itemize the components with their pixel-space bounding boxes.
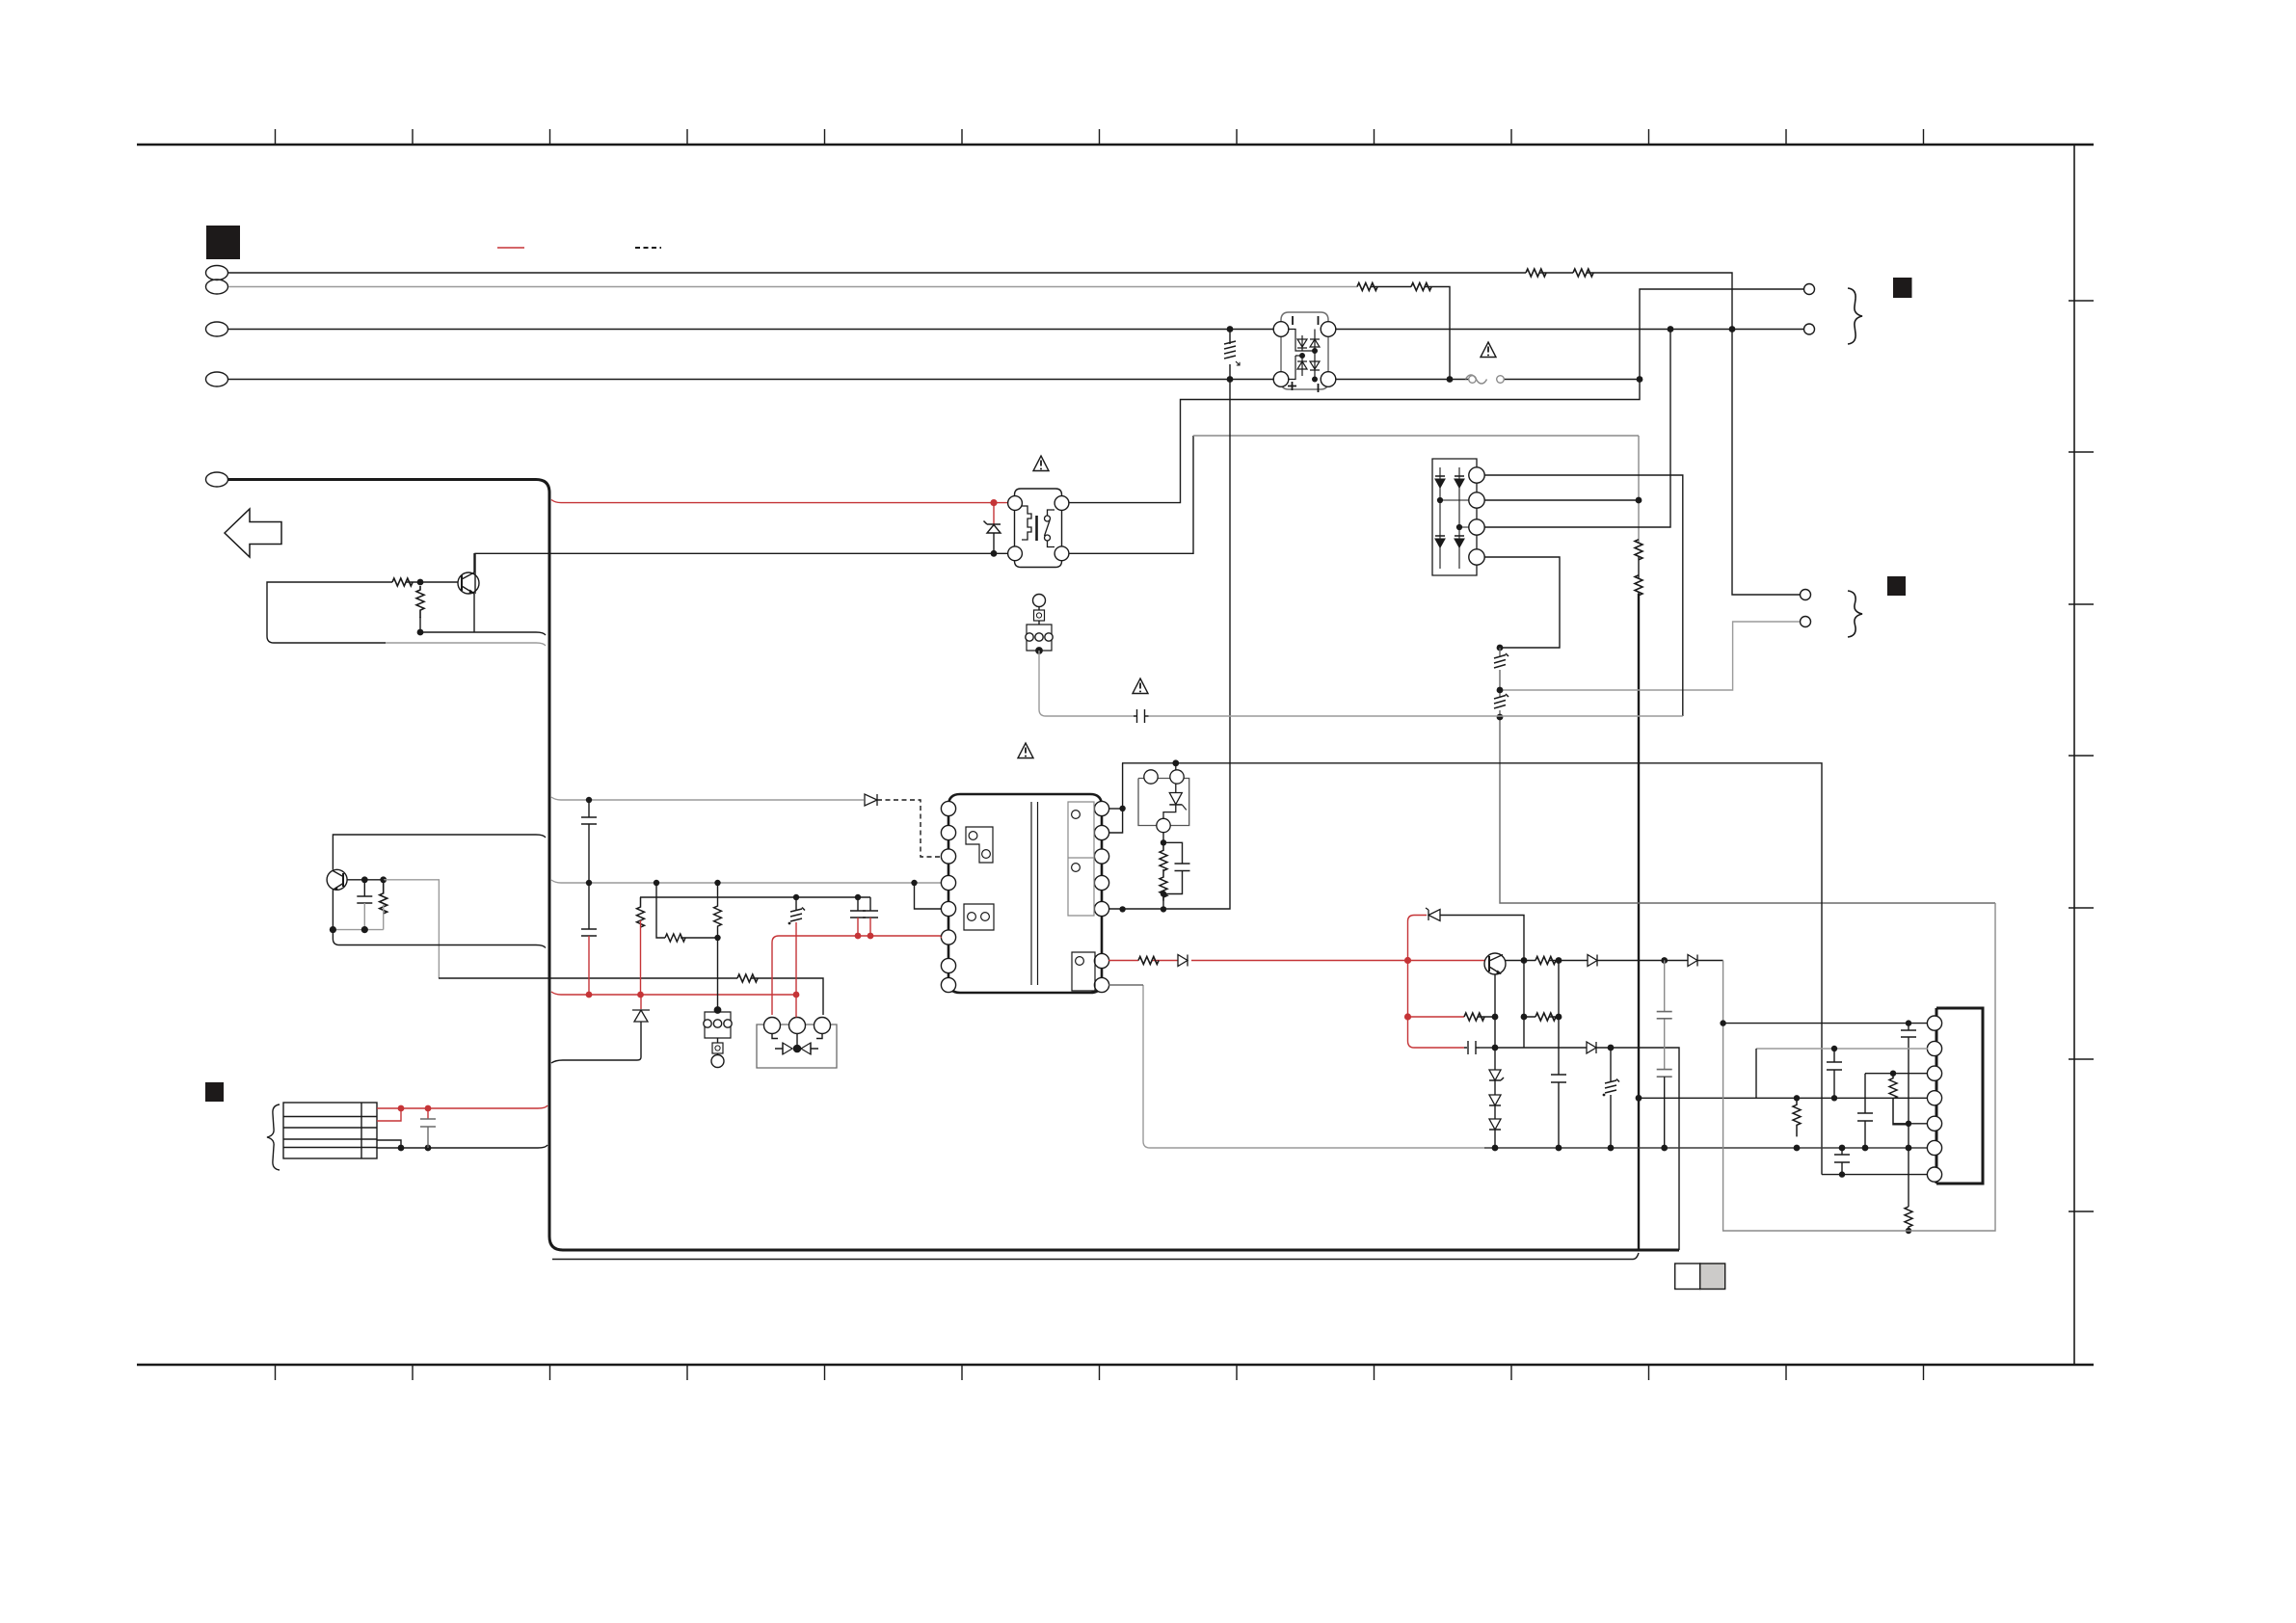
node battery red a: [398, 1105, 405, 1112]
transformer secondary pins: [1094, 801, 1108, 992]
capacitor C2: [850, 897, 866, 918]
node pin1 tap: [1906, 1020, 1911, 1025]
resistor R14: [1889, 1074, 1909, 1125]
node rail x1164: [1119, 906, 1125, 912]
wire thick live feed line 5: [228, 480, 1679, 1251]
capacitor C15: [1834, 1148, 1850, 1175]
node battery black b: [425, 1145, 432, 1152]
warning triangle lower: [1018, 743, 1033, 758]
resistor R5 vertical: [637, 897, 645, 927]
startup rail top: [1122, 763, 1822, 1175]
node bus d: [1661, 1145, 1668, 1152]
node red start b: [637, 992, 644, 998]
node divider bottom: [1161, 891, 1166, 896]
bridge D101 pin AC1: [1273, 322, 1289, 337]
resistor R101: [1526, 269, 1546, 277]
node red base: [1404, 957, 1411, 964]
wire cap rail to bridge2 loop: [1149, 715, 1683, 717]
node red start a: [586, 992, 593, 998]
bridge D103 pin 1: [1469, 467, 1484, 483]
node bus f: [1839, 1145, 1846, 1152]
resistor R13: [1905, 1207, 1912, 1231]
zener ZD2: [1494, 694, 1508, 708]
wire relay pin4 riser to sense: [1069, 436, 1193, 553]
zener chain vertical: [1500, 648, 1995, 903]
connector CN2: [704, 1007, 732, 1068]
wire D4 to loop: [1697, 960, 1723, 962]
regulator IC1 body: [1936, 1008, 1983, 1184]
warning triangle fuse area: [1481, 342, 1496, 358]
wire red mid branch: [1408, 1016, 1465, 1018]
wire red primary feed: [941, 937, 942, 939]
terminal T1: [1804, 284, 1815, 295]
wire R11 lead: [1524, 960, 1588, 962]
node red relay feed: [990, 499, 997, 506]
node snubber rail a: [793, 894, 799, 900]
warning triangle center: [1133, 678, 1148, 694]
node enclosure pin1: [1720, 1020, 1725, 1025]
connector oval pin 2: [206, 279, 228, 294]
resistor R9: [1138, 957, 1159, 965]
capacitor C6: [1163, 842, 1190, 893]
legend dashed line sample: [635, 247, 661, 249]
wire snubber top rail: [640, 896, 870, 898]
node bus e: [1794, 1145, 1801, 1152]
bridge D103 pin 3: [1469, 519, 1484, 535]
wire ZNR2 red drop: [795, 922, 797, 1018]
node gray mid a: [586, 880, 592, 886]
diode D102 relay clamp: [984, 506, 1001, 553]
node Q1 emitter junction: [417, 629, 424, 636]
node red mid: [1404, 1013, 1411, 1020]
node battery red b: [425, 1105, 432, 1112]
winding box secondary upper: [1068, 802, 1094, 916]
wire Q3 base rail: [347, 879, 384, 881]
wire pin4 feed: [1639, 1097, 1928, 1099]
node pin3 tap: [1890, 1071, 1896, 1077]
bridge D101 pin +: [1273, 372, 1289, 387]
dashed link to T1 pin3: [877, 800, 942, 857]
connector oval pin 5: [206, 472, 228, 487]
node startup bottom rail: [1161, 906, 1166, 912]
resistor R11: [1535, 957, 1556, 965]
zener ZD1: [1494, 653, 1508, 668]
secondary ground bus: [1143, 985, 1484, 1148]
node startup top: [1172, 759, 1179, 766]
transistor Q3: [327, 835, 546, 930]
resistor R10: [1464, 1013, 1484, 1021]
node battery black a: [398, 1145, 405, 1152]
node R6 right: [714, 935, 720, 941]
diode D1: [865, 794, 877, 806]
terminal T3: [1801, 590, 1811, 600]
node line3 varistor top: [1227, 326, 1234, 333]
capacitor C11: [1551, 961, 1566, 1149]
node red aux b: [868, 933, 874, 940]
wire AC line 1: [228, 273, 1800, 595]
transformer T1 body: [948, 794, 1102, 993]
wire bridge2 pin4 to zener chain: [1484, 557, 1560, 648]
wire CN1 to cap rail: [1039, 651, 1134, 716]
wire base rail gray onward: [384, 880, 439, 978]
node divider left: [1521, 1014, 1528, 1021]
zener diode chain left: [551, 995, 650, 1063]
varistor ZNR2: [788, 897, 805, 924]
node C12 taps: [1906, 1121, 1911, 1127]
wire C2 C3 red tails: [858, 918, 870, 936]
capacitor C12: [1901, 1024, 1916, 1207]
node fuse left: [1447, 376, 1454, 383]
relay RY1 coil: [1022, 506, 1031, 540]
legend black square: [206, 226, 240, 259]
node low rail a: [1608, 1045, 1615, 1051]
relay RY1 pin 1: [1008, 496, 1023, 511]
wire R5 red tail: [640, 920, 642, 995]
node gray rail upper: [586, 797, 592, 803]
node zener bottom feed: [1497, 714, 1504, 721]
wire Q3 return to bus: [333, 930, 546, 948]
wire emitter return to bus: [420, 617, 546, 635]
battery brace: [267, 1104, 280, 1170]
wire snubber corner: [639, 896, 641, 898]
bottom ruler ticks: [276, 1365, 1924, 1380]
node emitter rail a: [330, 926, 336, 933]
wire emitter low rail: [1495, 1048, 1679, 1250]
gray enclosure loop: [1723, 903, 1995, 1231]
wire C5 red tail: [588, 936, 590, 995]
wire feedback divider: [656, 883, 718, 938]
transistor Q1: [458, 553, 479, 632]
wire red low branch: [1408, 1041, 1465, 1048]
node bus h: [1906, 1145, 1912, 1152]
node bus b: [1556, 1145, 1562, 1152]
relay RY1 pin 2: [1055, 496, 1069, 511]
bridge D101 inner rails: [1289, 330, 1320, 382]
zener stack Q2 emitter: [1489, 1070, 1504, 1148]
resistor R3: [380, 880, 387, 914]
node emitter mid: [1492, 1014, 1499, 1021]
node line4 varistor bottom: [1227, 376, 1234, 383]
connector oval pin 3: [206, 322, 228, 336]
capacitor C10a C10b chain: [1664, 960, 1666, 1069]
transformer primary pins: [941, 801, 955, 992]
marker square output 1: [1893, 278, 1912, 298]
wire relay pin2 riser to T1: [1069, 289, 1804, 503]
capacitor C7 series: [1134, 709, 1149, 723]
IC1 pin 3: [1927, 1066, 1941, 1080]
node divider top: [1161, 839, 1166, 845]
startup circuit box: [1138, 763, 1189, 833]
wire thick secondary return drop: [1638, 594, 1640, 1250]
wire bridge2 pin2: [1484, 499, 1639, 501]
capacitor C13: [1827, 1049, 1842, 1098]
wire pin7 feed: [1822, 1174, 1928, 1176]
connector oval pin 4: [206, 372, 228, 386]
node emitter low: [1492, 1045, 1499, 1051]
wire T4 to zener chain gray: [1500, 622, 1800, 690]
capacitor C9 series: [1464, 1041, 1480, 1054]
node out rail b: [1661, 957, 1668, 964]
brace output pair 2: [1848, 591, 1862, 637]
node R12 right: [1556, 1014, 1562, 1021]
thermal protector TH1: [757, 1018, 837, 1069]
bridge rectifier D103 outline: [1432, 459, 1477, 575]
capacitor C14: [1857, 1074, 1873, 1148]
IC1 pin 5: [1927, 1116, 1941, 1131]
capacitor C3: [863, 897, 878, 918]
wire red aux rail: [772, 936, 941, 1015]
node bus a: [1492, 1145, 1499, 1152]
wire battery red main: [377, 1105, 547, 1108]
sheet frame group: [137, 129, 2094, 1380]
resistor R4: [737, 974, 758, 982]
wire thin return bus lower: [552, 1253, 1639, 1260]
wire pin5 rail to line4: [1108, 380, 1230, 910]
relay RY1 pin 4: [1055, 546, 1069, 561]
wire ZD3 to collector: [1440, 916, 1524, 961]
terminal T2: [1804, 324, 1815, 334]
relay RY1 pin 3: [1008, 546, 1023, 561]
wire red vertical Q2: [1408, 916, 1428, 1042]
wire D3 onward: [1597, 960, 1688, 962]
wire red bus to relay: [551, 500, 1008, 503]
marker square output 2: [1887, 576, 1906, 596]
node bus c: [1608, 1145, 1615, 1152]
IC1 pin 7: [1927, 1167, 1941, 1182]
node pin4 taps: [1794, 1095, 1800, 1101]
connector CN1: [1026, 595, 1053, 654]
transistor Q2: [1484, 953, 1524, 1070]
wire divider to rail: [1162, 894, 1164, 910]
wire AC line 2 gray: [228, 286, 1357, 288]
diode D2: [1178, 955, 1188, 967]
wire battery black sense: [377, 1140, 401, 1148]
node gray mid d: [911, 880, 917, 886]
wire sense chain vertical: [1638, 436, 1640, 543]
node pin1 link: [1119, 806, 1125, 811]
resistor R106: [1635, 575, 1642, 596]
fuse F1: [1466, 375, 1505, 384]
wire C9 to emitter: [1480, 1047, 1495, 1049]
wire AC line 3: [228, 329, 1804, 331]
winding tap box primary upper: [966, 827, 993, 863]
winding tap box primary lower: [964, 904, 994, 930]
wire battery red sense: [377, 1108, 401, 1121]
bridge D101 polarity marks: [1293, 316, 1319, 392]
wire red start rail: [551, 992, 796, 995]
resistor R2 Q1: [416, 586, 424, 618]
node pin7 tap: [1839, 1171, 1845, 1177]
right border ticks: [2069, 301, 2094, 1211]
node bridge2 ac on drop: [1636, 497, 1642, 504]
node snubber rail b: [855, 894, 861, 900]
resistor R15: [1793, 1098, 1801, 1136]
node R13 bottom: [1906, 1228, 1911, 1234]
wire red output from pin6: [1108, 960, 1485, 962]
node emitter rail b: [361, 926, 368, 933]
zener ZD3: [1426, 908, 1440, 921]
node out rail a: [1556, 957, 1562, 964]
top ruler line: [137, 144, 2094, 146]
node line3 to bridge2: [1668, 326, 1674, 333]
wire startup left drop: [1108, 763, 1123, 833]
resistor R102: [1573, 269, 1593, 277]
node Q3 base b: [380, 876, 387, 883]
node gray mid c: [714, 880, 720, 886]
wire collector divider: [1524, 961, 1559, 1049]
wire R1 to base: [406, 581, 458, 583]
node Q2 collector: [1521, 957, 1528, 964]
wire opto output line: [439, 978, 823, 1015]
bridge D103 inner diodes: [1435, 467, 1469, 569]
brace output pair 1: [1848, 288, 1862, 344]
bridge D101 pin AC2: [1321, 322, 1336, 337]
node Q3 base a: [361, 876, 368, 883]
resistor R105: [1635, 540, 1642, 560]
wire pin2 feed gray: [1756, 1048, 1928, 1050]
wire Q1 base loop: [267, 582, 392, 643]
node pin2 tap: [1831, 1046, 1837, 1051]
diode D3: [1588, 955, 1597, 967]
wire pin2 riser: [1755, 1049, 1757, 1098]
varistor ZNR3: [1603, 1048, 1619, 1148]
resistor R6 horizontal: [665, 934, 685, 942]
wire between R103 R104: [1371, 286, 1411, 288]
bridge rectifier D101 outline: [1281, 312, 1328, 389]
wire relay return to Q1 collector: [475, 553, 1008, 594]
wire pin4 gray link: [915, 883, 943, 909]
IC1 pin 6: [1927, 1140, 1941, 1155]
IC1 pin 4: [1927, 1091, 1941, 1105]
bridge D101 pin -: [1321, 372, 1336, 387]
bottom ruler line: [137, 1364, 2094, 1367]
resistor R7 vertical: [714, 883, 722, 1010]
battery pack BT1: [283, 1103, 377, 1158]
gray rail mid: [551, 880, 942, 883]
IC1 pin 2: [1927, 1041, 1941, 1055]
bridge D103 pin 2: [1469, 492, 1484, 508]
wire startup to divider: [1162, 833, 1164, 843]
capacitor C5: [581, 883, 597, 936]
wire battery black main: [377, 1145, 547, 1148]
resistor R104: [1411, 283, 1431, 291]
node Q1 base divider: [417, 579, 424, 586]
connector oval pin 1: [206, 266, 228, 280]
wire pin5 feed: [1893, 1123, 1928, 1125]
wire emitter rail gray: [333, 929, 383, 931]
capacitor C4: [581, 800, 597, 883]
node relay return: [991, 550, 998, 557]
resistor R12: [1535, 1013, 1556, 1021]
gray rail upper: [551, 797, 864, 800]
terminal T4: [1801, 617, 1811, 627]
node fuse right: [1637, 376, 1643, 383]
wire AC line 4: [228, 379, 1640, 381]
wire bridge2 pin1 loop: [1484, 475, 1683, 716]
marker square battery: [205, 1082, 224, 1102]
node gray mid b: [654, 880, 659, 886]
transformer core lines: [1031, 802, 1038, 985]
block arrow to mains: [225, 509, 281, 557]
wire R104 to fuse line: [1425, 287, 1450, 380]
relay RY1 outline: [1015, 489, 1062, 568]
capacitor C8: [427, 1108, 429, 1119]
legend red line sample: [497, 247, 524, 249]
wire R10 to emitter: [1478, 1016, 1495, 1018]
capacitor C1: [357, 880, 372, 903]
wire pin1 stub: [1108, 808, 1123, 810]
node red start rail: [793, 992, 800, 998]
resistor R103: [1357, 283, 1377, 291]
bridge D103 pin 4: [1469, 549, 1484, 565]
IC1 pin 1: [1927, 1016, 1941, 1030]
node bus g: [1862, 1145, 1869, 1152]
wire pin1 feed: [1723, 1023, 1928, 1024]
winding box secondary lower: [1072, 952, 1095, 991]
relay RY1 contact: [1037, 510, 1055, 547]
resistor R8a: [1160, 842, 1167, 870]
node pin4 feed on drop: [1636, 1095, 1642, 1102]
right border line: [2073, 145, 2075, 1365]
wire bridge2 pin3 to line3: [1484, 330, 1670, 528]
node zener chain top: [1497, 645, 1504, 652]
wire pin7 to bus: [1108, 984, 1143, 986]
resistor R8b: [1160, 869, 1167, 901]
warning triangle relay: [1033, 456, 1049, 471]
wire pin3 feed: [1865, 1073, 1928, 1075]
node line3 T-junction: [1729, 326, 1736, 333]
resistor R1 Q1 base: [392, 578, 413, 586]
diode D5: [1587, 1042, 1596, 1053]
varistor VA1: [1224, 330, 1240, 380]
legend box pair: [1675, 1264, 1700, 1290]
diode D4: [1688, 955, 1697, 967]
node red aux a: [855, 933, 862, 940]
node zener mid T4: [1497, 687, 1504, 694]
top ruler ticks: [276, 129, 1924, 145]
